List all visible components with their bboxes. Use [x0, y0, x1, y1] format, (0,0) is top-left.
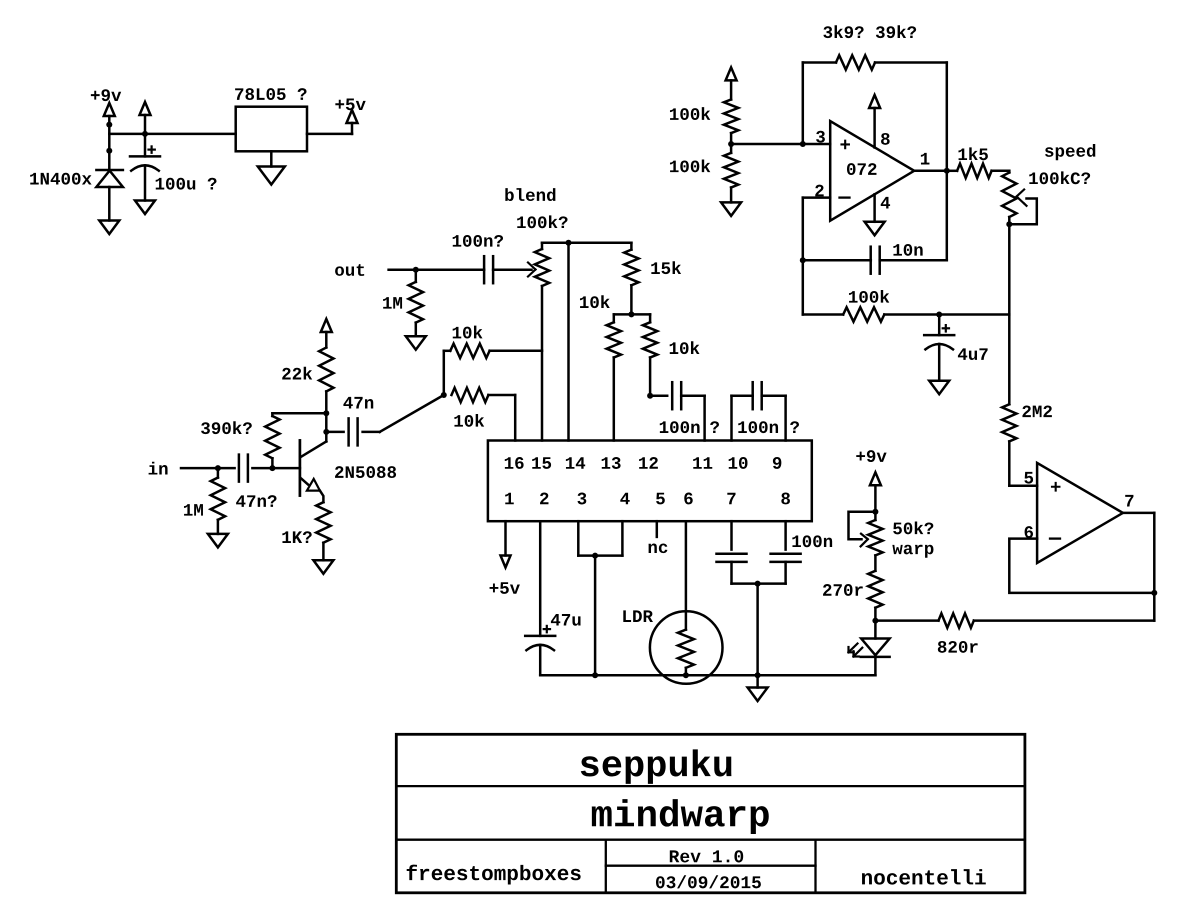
junction dot rail (ground)	[755, 672, 761, 678]
label 100k? (blend)	[517, 215, 567, 228]
label 100k (osc)	[849, 290, 889, 303]
wire 1k5 to speed pot	[992, 170, 1010, 173]
wire +9v vertical to diode	[108, 116, 111, 170]
wire op-amp2 output	[1123, 513, 1154, 621]
junction dot 4u7 tap	[936, 312, 942, 318]
IC pin 3 number	[577, 493, 586, 505]
label speed	[1045, 144, 1095, 160]
label pin 6	[1025, 526, 1033, 538]
wire 10n left	[803, 259, 871, 262]
op-amp U1 - input symbol	[840, 196, 850, 198]
title text nocentelli	[862, 869, 986, 884]
junction dot divider	[728, 141, 734, 147]
IC pin 16 number	[505, 457, 524, 469]
wire feedback left vertical	[802, 63, 805, 145]
junction dot rail (pins3-4)	[592, 672, 598, 678]
resistor R 100k (divider bottom)	[724, 144, 738, 202]
junction dot LDR bottom	[683, 672, 689, 678]
junction dot pins3-4	[592, 553, 598, 559]
label 22k	[282, 367, 312, 380]
wire caps join to rail	[756, 584, 759, 676]
potentiometer R speed 100kC?	[1002, 171, 1016, 225]
warp wiper arrowhead	[861, 534, 868, 547]
wire 390k top to collector node	[272, 412, 326, 415]
title text Rev 1.0	[670, 850, 743, 862]
wire 47u to rail	[539, 645, 542, 675]
wire 4u7 to ground	[938, 344, 941, 381]
wire pin8 supply	[873, 108, 876, 148]
label 2N5088	[335, 466, 396, 478]
power flag +9v arrow	[104, 103, 115, 116]
IC pin 2 number	[540, 493, 548, 505]
power flag above divider	[726, 67, 737, 99]
potentiometer R warp 50k?	[868, 520, 882, 555]
junction dot caps join	[755, 581, 761, 587]
label +5v	[335, 99, 365, 111]
node out (label)	[335, 264, 364, 276]
junction dot 270r/LED/820r	[872, 618, 878, 624]
resistor R 1M (output)	[409, 270, 423, 337]
blend wiper arrowhead	[528, 263, 536, 277]
wire speed to 2M2	[1008, 224, 1011, 404]
resistor R 100k (divider top)	[724, 100, 738, 145]
resistor R 390k?	[265, 413, 279, 468]
wire pin3 stub	[577, 521, 580, 555]
IC pin 13 number	[602, 457, 621, 469]
IC pin 15 number	[532, 457, 551, 469]
ground below input 1M	[208, 534, 228, 548]
title block mid divider	[606, 865, 816, 867]
junction dot base node	[269, 465, 275, 471]
label 100kC?	[1029, 171, 1090, 184]
junction dot 390k/22k	[323, 410, 329, 416]
label 47u	[551, 614, 581, 626]
LED D2 emission arrows	[849, 644, 863, 657]
wire blend top to 15k	[542, 242, 631, 245]
title block vertical divider right	[814, 840, 816, 893]
wire pin1 stub	[504, 521, 507, 555]
IC pin 6 number	[684, 493, 692, 505]
wire pin7 to cap	[730, 521, 733, 549]
wire op-amp1 output	[914, 170, 947, 173]
label 390k?	[201, 421, 252, 434]
power flag +9v (warp)	[870, 472, 881, 520]
ground below 100u	[135, 201, 155, 215]
wire cap to pin9	[762, 396, 786, 441]
IC pin 4 number	[620, 493, 629, 505]
IC pin 7 number	[727, 493, 735, 505]
power flag +5v	[347, 110, 358, 134]
LED D2	[861, 621, 890, 676]
label 100n (pin8)	[792, 535, 832, 547]
resistor R 22k	[319, 332, 333, 413]
title block vertical divider left	[605, 840, 607, 893]
wire pin2 to 47u	[539, 521, 542, 636]
wire cap to base	[252, 467, 300, 470]
resistor R 100k (osc)	[803, 307, 1010, 321]
label pin 1	[921, 153, 930, 165]
IC pin 5 number	[656, 493, 665, 505]
op-amp U1b - input symbol	[1050, 537, 1060, 539]
wire 22k-collector segment	[325, 413, 328, 432]
label 50k?	[893, 521, 933, 534]
junction dot warp wiper	[872, 509, 878, 515]
wire out segment	[389, 268, 485, 271]
wire node A up	[444, 351, 451, 395]
title text mindwarp	[592, 799, 769, 834]
power flag +5v (pin 1, down)	[501, 556, 511, 568]
label 4u7	[958, 348, 988, 360]
junction dot pin2/10n	[800, 257, 806, 263]
resistor R 1M (input)	[211, 468, 225, 534]
title block divider 2	[396, 839, 1025, 841]
LDR resistor element	[678, 630, 694, 676]
label 100n (12-11)	[660, 421, 700, 433]
title text seppuku	[581, 749, 732, 783]
label 10k (lower)	[454, 414, 484, 427]
transistor Q1 2N5088	[300, 432, 326, 496]
label 100n (10-9)	[738, 421, 778, 433]
wire pin5 stub nc	[656, 521, 659, 537]
diode D1 1N400x	[96, 170, 123, 221]
junction dot op2 feedback	[1151, 590, 1157, 596]
label 10n	[893, 244, 922, 256]
ground below output 1M	[406, 336, 426, 350]
label 820r	[938, 641, 978, 653]
resistor R 10k (to blend wiper line)	[450, 344, 489, 358]
label pin 8	[881, 133, 890, 145]
wire ground rail	[540, 674, 875, 677]
IC pin 1 number	[505, 493, 514, 505]
label 1M (output)	[383, 297, 402, 309]
resistor R 820r	[875, 613, 1154, 627]
label 10k (pair right)	[670, 341, 700, 354]
title text date	[656, 875, 761, 888]
op-amp U1b triangle	[1037, 463, 1123, 563]
wire pin8 cap to join	[758, 562, 786, 584]
resistor R 270r	[868, 571, 882, 621]
power flag above 22k	[321, 319, 332, 332]
wire arrow to cap	[144, 115, 147, 156]
junction dot blend/pin14	[566, 240, 572, 246]
wire pin2 segment	[803, 198, 830, 315]
wire pin6 feedback	[1009, 539, 1154, 593]
label 3k9? 39k?	[823, 25, 916, 38]
label 47n?	[236, 495, 276, 507]
IC pin 9 number	[773, 457, 781, 469]
IC pin 12 number	[639, 457, 658, 469]
label 10k (pair left)	[580, 295, 610, 308]
label 100k (divider top)	[670, 107, 710, 120]
wire cap to pin11	[681, 396, 704, 441]
resistor R 1k5	[957, 164, 992, 178]
wire speed wiper loop	[1009, 199, 1037, 225]
junction dot 15k bottom	[628, 311, 634, 317]
label 15k	[651, 261, 681, 274]
wire feedback right vertical	[946, 63, 949, 261]
wire diagonal to 10k node	[380, 395, 444, 432]
wire pin8 to cap	[784, 521, 787, 549]
label nc	[649, 544, 668, 554]
ground below divider	[721, 202, 741, 216]
label blend	[505, 188, 555, 201]
label 78L05 ?	[235, 88, 306, 100]
capacitor C 47n? (input)	[239, 455, 248, 482]
resistor R 10k (to pin 12)	[643, 314, 657, 395]
wire 10k pair top connector	[614, 313, 650, 316]
label warp	[892, 545, 933, 558]
title text freestompboxes	[407, 865, 581, 885]
label pin 4	[881, 197, 890, 209]
wire pin4 stub	[621, 521, 624, 555]
label 1N400x	[30, 173, 91, 185]
wire pin10 to cap	[732, 396, 753, 441]
resistor R 3k9?	[836, 55, 875, 69]
wire regulator ground	[270, 151, 273, 166]
transistor Q1 emitter arrow	[307, 479, 324, 502]
wire cap to blend wiper	[493, 268, 531, 271]
label 270r	[823, 584, 863, 596]
capacitor C 10n	[871, 247, 880, 274]
label 1M (input)	[184, 504, 203, 516]
label +9v (warp)	[856, 450, 886, 462]
IC pin 8 number	[781, 493, 790, 505]
op-amp U1 + input symbol	[840, 140, 850, 150]
junction dot collector node	[323, 429, 329, 435]
wire pin4 ground	[873, 194, 876, 222]
junction dot +9v upper	[106, 122, 112, 128]
wire pin3-pin4 join	[578, 554, 622, 557]
capacitor C 100u	[130, 146, 160, 170]
IC pin 14 number	[566, 457, 585, 469]
capacitor C 47u	[525, 626, 555, 650]
wire pin6 to LDR	[685, 521, 688, 629]
speed wiper arrowhead	[1017, 190, 1027, 206]
IC U2 body	[488, 441, 812, 522]
wire feedback top left	[803, 61, 836, 64]
ground below 4u7	[929, 381, 949, 395]
wire pin7 cap to join	[732, 562, 758, 584]
capacitor C 100n (pin7)	[717, 554, 747, 562]
resistor R 1K?	[316, 502, 330, 560]
wire 2M2 to pin5	[1009, 441, 1037, 485]
junction dot cap/rail	[142, 131, 148, 137]
title block outer frame	[396, 734, 1025, 893]
ground below D1	[99, 221, 119, 235]
power flag pin8	[869, 95, 880, 108]
junction dot pin12 node	[647, 393, 653, 399]
label ? (12-11)	[710, 421, 719, 433]
junction dot speed bottom	[1006, 221, 1012, 227]
resistor R 10k (to pin 13)	[607, 314, 621, 440]
label 100k (divider bottom)	[670, 159, 710, 172]
wire 10k to pin15 line	[490, 350, 542, 353]
label pin 2	[815, 185, 823, 197]
wire 10n right	[880, 259, 947, 262]
ground below rail	[748, 675, 768, 701]
capacitor C 47n (collector)	[326, 418, 379, 445]
resistor R 15k	[624, 243, 638, 315]
label 2M2	[1022, 405, 1051, 417]
ground below pin4	[865, 222, 885, 236]
resistor R 10k (to pin 16)	[452, 388, 489, 402]
wire +9v rail to regulator	[109, 133, 235, 136]
node +9v (label)	[91, 89, 121, 101]
label pin 7	[1125, 495, 1133, 507]
label 10k (upper)	[453, 326, 483, 339]
wire pin12 to cap node	[650, 394, 667, 397]
junction dot output/feedback	[944, 168, 950, 174]
wire warp to 270r	[874, 555, 877, 570]
label 47n (collector)	[343, 397, 373, 409]
LDR body circle	[650, 611, 723, 684]
label 1k5	[958, 147, 987, 160]
label 072	[847, 163, 876, 175]
label +5v (pin1)	[490, 582, 520, 594]
wire 4u7 stem	[938, 315, 941, 336]
wire output to 1k5	[947, 170, 957, 173]
op-amp U1 072 triangle	[830, 121, 914, 221]
label ? (10-9)	[790, 421, 799, 433]
label pin 5	[1024, 472, 1033, 484]
junction dot pin3/feedback	[800, 141, 806, 147]
capacitor C 100n (pins 10-9)	[753, 382, 762, 409]
junction dot 10k node A	[441, 392, 447, 398]
capacitor C 100n (pin8)	[771, 554, 801, 562]
wire pins3-4 to rail	[594, 556, 597, 676]
wire cap to ground	[144, 166, 147, 201]
wire warp wiper loop	[849, 512, 876, 540]
label 100u ?	[156, 178, 217, 190]
IC pin 10 number	[729, 457, 748, 469]
regulator U 78L05 box	[236, 107, 307, 152]
capacitor C 100n (pins 12-11)	[672, 382, 681, 409]
wire regulator output	[307, 133, 352, 136]
ground below 1K?	[313, 560, 333, 574]
IC pin 11 number	[693, 457, 712, 469]
capacitor C 4u7	[924, 325, 954, 349]
label LDR	[623, 610, 653, 622]
resistor R 2M2	[1002, 404, 1016, 441]
power flag above C 100u	[140, 102, 151, 115]
junction dot in/1M	[215, 465, 221, 471]
node in (label)	[149, 462, 168, 475]
wire pin14 vertical	[567, 243, 570, 441]
potentiometer R blend 100k?	[535, 243, 549, 441]
junction dot +9v lower	[106, 148, 112, 154]
ground below 78L05	[258, 167, 285, 185]
wire divider to pin3	[731, 143, 830, 146]
junction dot out/1M	[413, 267, 419, 273]
label pin 3	[816, 131, 825, 143]
wire in to cap	[181, 467, 235, 470]
label 1K?	[282, 531, 311, 543]
wire 10k to pin16	[488, 395, 515, 441]
title block divider 1	[396, 785, 1025, 787]
capacitor C 100n? (output)	[484, 256, 493, 283]
wire feedback top right	[875, 61, 947, 64]
op-amp U1b + input symbol	[1051, 482, 1061, 492]
label 100n?	[453, 235, 503, 247]
